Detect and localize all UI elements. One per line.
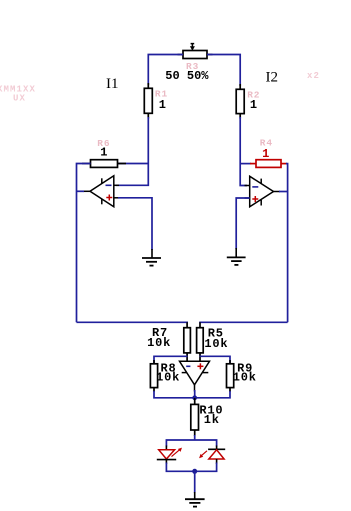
resistor R10 bbox=[191, 398, 199, 436]
svg-text:10k: 10k bbox=[147, 336, 171, 350]
wire U1 output to left rail bbox=[77, 190, 85, 192]
wire U2 output to right rail bbox=[279, 191, 288, 193]
wire pot left to node above R1 bbox=[148, 55, 183, 86]
potentiometer R3 body bbox=[183, 51, 207, 59]
wire pot right to node above R2 bbox=[207, 55, 240, 87]
op-amp U3 (bottom, pointing down) bbox=[180, 361, 210, 391]
LED D2 (right, pointing up) bbox=[199, 446, 225, 465]
svg-text:1: 1 bbox=[159, 98, 167, 112]
svg-text:10k: 10k bbox=[233, 371, 257, 385]
ground (bottom) bbox=[185, 492, 205, 507]
resistor R2 bbox=[236, 84, 244, 119]
resistor R8 bbox=[150, 360, 157, 392]
junction node at LED bracket bottom bbox=[192, 469, 197, 474]
wire R8 top to R9 top (crossing inputs) bbox=[154, 356, 188, 364]
svg-text:I2: I2 bbox=[266, 70, 279, 86]
svg-text:x2: x2 bbox=[307, 71, 320, 81]
resistor R9 bbox=[227, 360, 234, 392]
svg-text:1: 1 bbox=[100, 146, 108, 160]
svg-text:1k: 1k bbox=[204, 413, 220, 427]
wire R8 bottom to junction to R9 bottom bbox=[154, 391, 230, 398]
wire node R2 branch to R4 left bbox=[240, 163, 251, 165]
op-amp U2 (right, pointing right) bbox=[245, 176, 281, 207]
svg-text:10k: 10k bbox=[156, 371, 180, 385]
wire U1 plus input to ground stem bbox=[118, 198, 152, 250]
pot right pin stub bbox=[207, 54, 213, 56]
svg-text:50 50%: 50 50% bbox=[165, 69, 209, 83]
resistor R7 bbox=[184, 322, 191, 361]
wire R6 left to left rail down to bus bbox=[77, 164, 91, 323]
ground (right middle) bbox=[227, 248, 246, 265]
junction node at U3 output bbox=[192, 395, 197, 400]
wire node R6 right to left branch bbox=[117, 163, 148, 165]
wire LED bracket bottom bbox=[166, 463, 216, 472]
ground (left middle) bbox=[142, 249, 161, 266]
resistor R6 bbox=[82, 160, 126, 168]
potentiometer R3 wiper arrow bbox=[190, 43, 195, 50]
wire R10 bottom to LED bracket top bbox=[194, 435, 196, 440]
svg-text:1: 1 bbox=[250, 98, 258, 112]
resistor R1 bbox=[144, 83, 152, 119]
wire R2 bottom down to right op-amp minus bbox=[240, 117, 247, 186]
bottom bus wire bbox=[77, 321, 189, 323]
resistor R4 (red) bbox=[250, 160, 287, 168]
op-amp U1 (left, pointing left) bbox=[84, 176, 120, 207]
resistor R5 bbox=[197, 322, 204, 361]
svg-text:10k: 10k bbox=[204, 337, 228, 351]
wire U3 output to junction bbox=[194, 390, 196, 398]
wire R4 right to right rail down to bus bbox=[286, 164, 288, 323]
LED D1 (left, pointing down) bbox=[157, 446, 182, 465]
wire LED bracket top bbox=[166, 440, 216, 447]
svg-text:1: 1 bbox=[262, 147, 270, 161]
svg-text:UX: UX bbox=[13, 94, 26, 104]
wire R1 bottom down to minus input level bbox=[116, 117, 148, 185]
svg-text:I1: I1 bbox=[106, 76, 119, 92]
wire U2 plus input to ground stem bbox=[236, 198, 250, 249]
wire junction to bottom ground bbox=[194, 471, 196, 493]
pot left pin stub bbox=[178, 54, 184, 56]
